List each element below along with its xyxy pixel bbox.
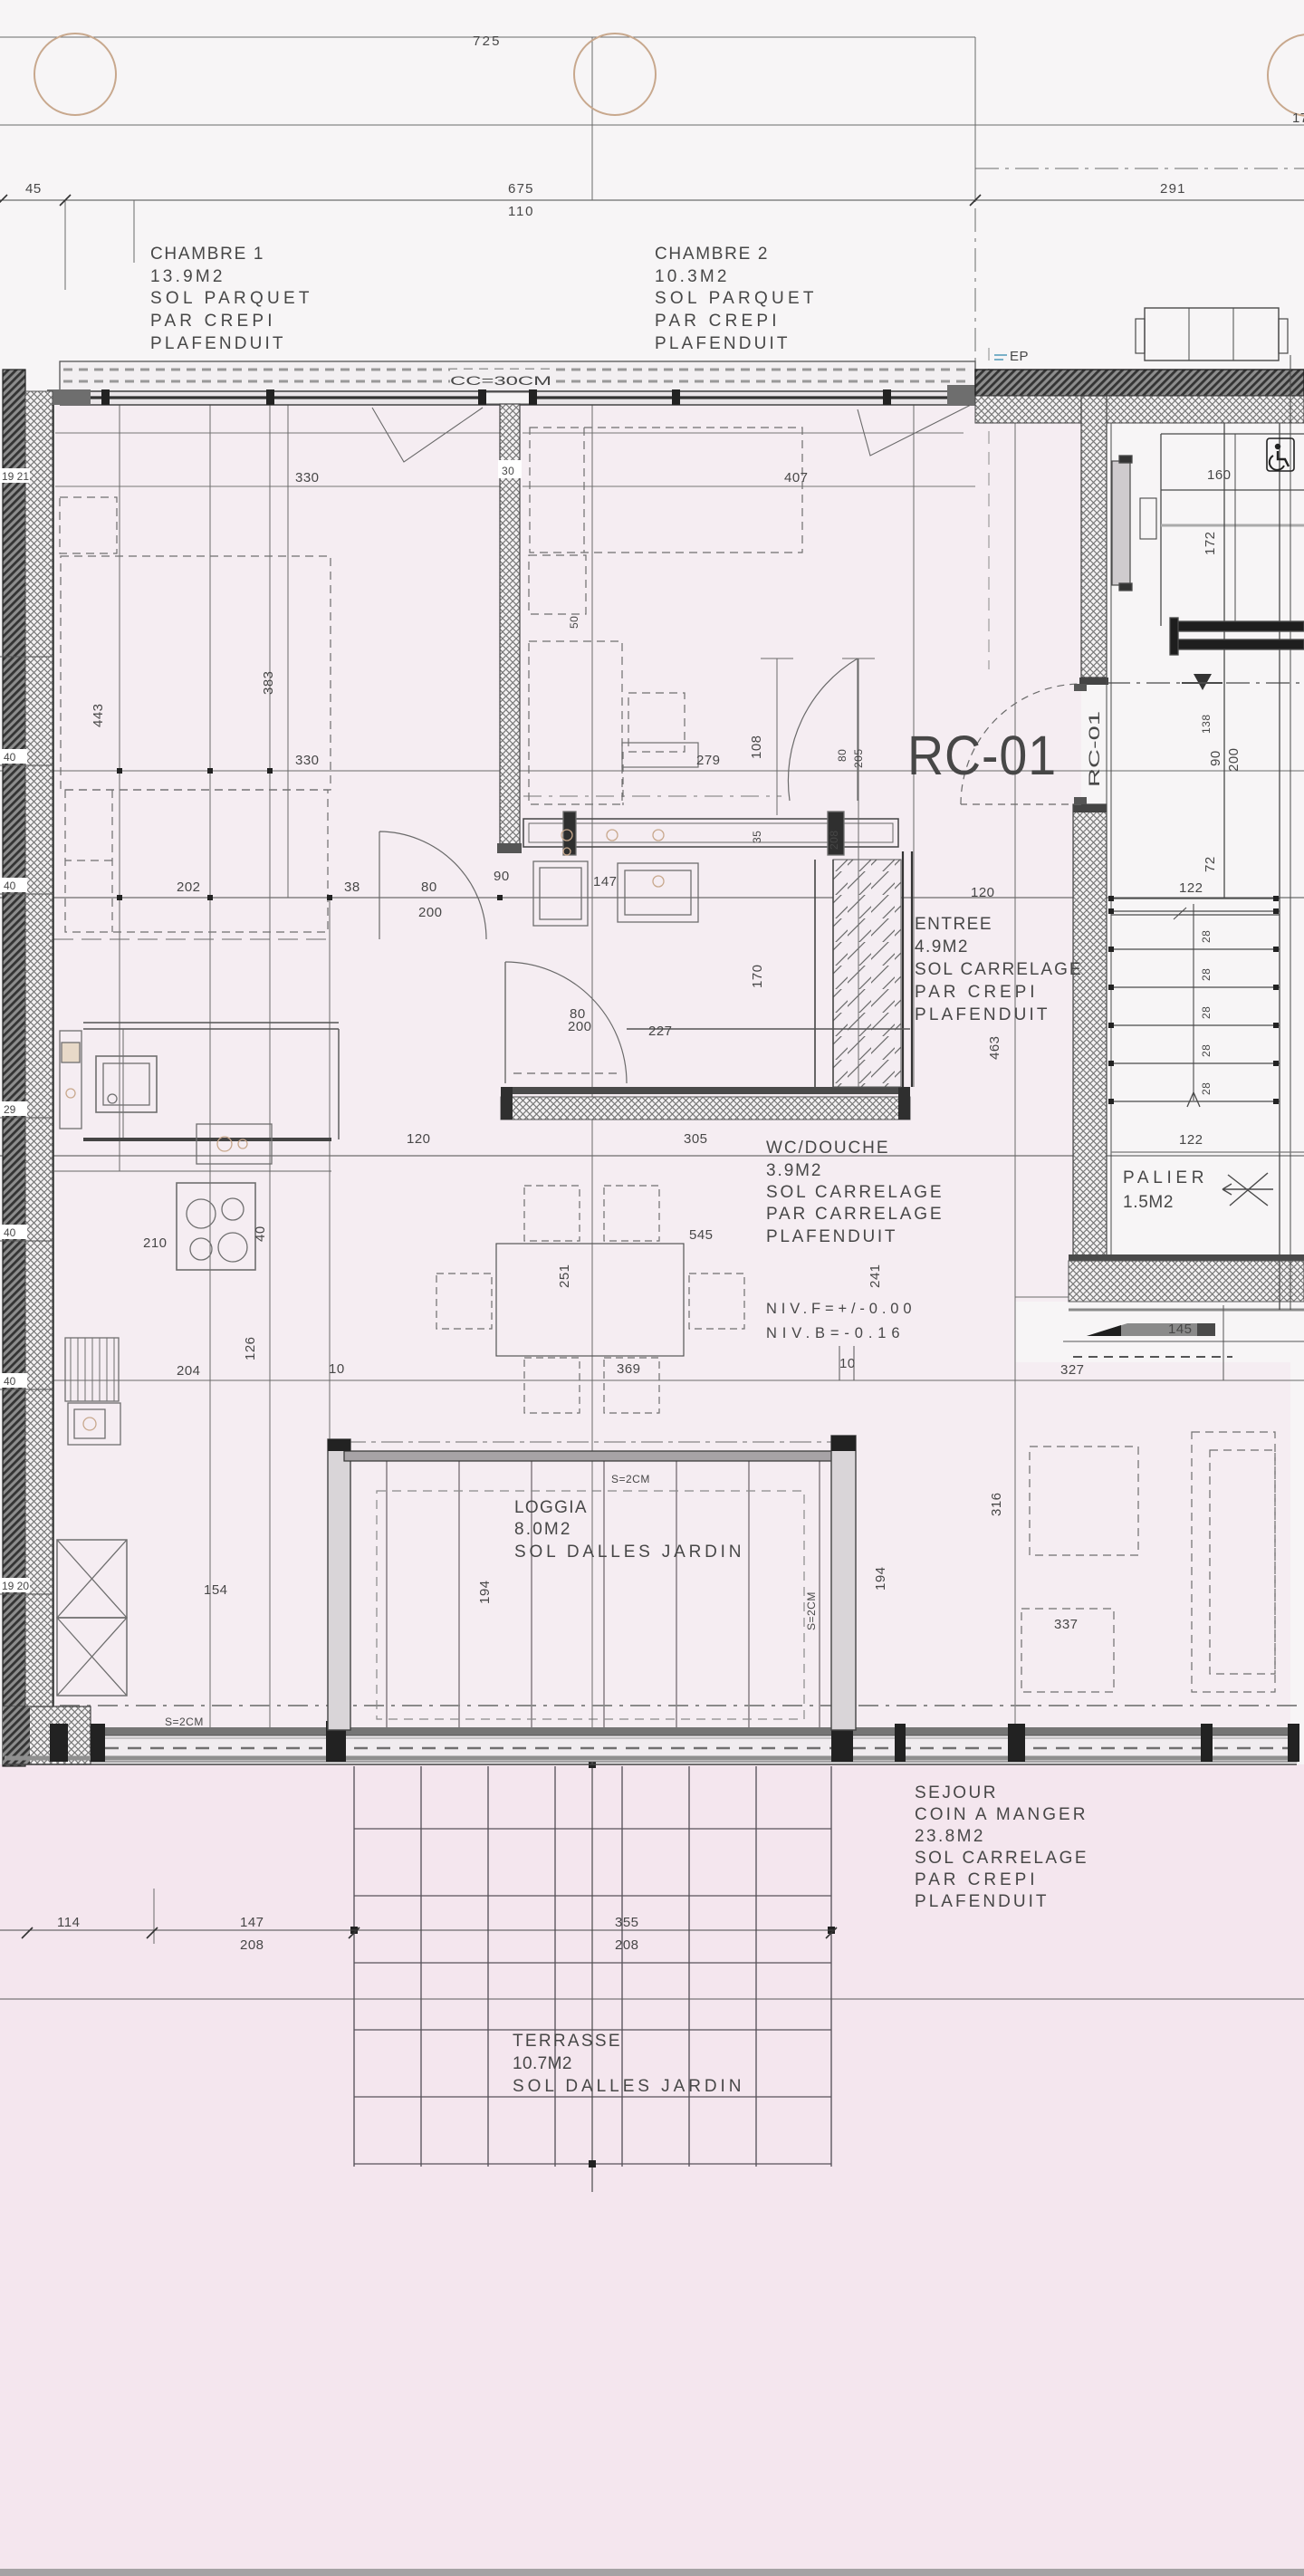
svg-text:90: 90 [494,869,510,884]
svg-text:355: 355 [615,1915,639,1930]
svg-text:545: 545 [689,1227,714,1243]
svg-text:202: 202 [177,879,201,895]
svg-text:40: 40 [253,1226,268,1242]
svg-text:RC-01: RC-01 [1087,711,1103,787]
svg-text:COIN A MANGER: COIN A MANGER [915,1805,1086,1824]
svg-text:8.0M2: 8.0M2 [514,1520,570,1539]
svg-text:407: 407 [784,470,809,485]
svg-text:208: 208 [240,1937,264,1953]
svg-text:227: 227 [648,1024,673,1039]
svg-text:138: 138 [1200,714,1213,734]
svg-text:725: 725 [473,34,500,49]
svg-text:383: 383 [261,670,276,695]
svg-text:29: 29 [4,1103,16,1116]
svg-text:122: 122 [1179,1132,1203,1148]
svg-text:28: 28 [1200,1044,1213,1057]
svg-text:291: 291 [1160,181,1185,197]
svg-text:PAR CREPI: PAR CREPI [150,312,273,331]
svg-text:PAR CREPI: PAR CREPI [915,1870,1035,1889]
svg-text:40: 40 [4,879,16,892]
svg-text:SOL PARQUET: SOL PARQUET [150,289,310,308]
svg-text:PLAFENDUIT: PLAFENDUIT [655,334,788,353]
svg-text:241: 241 [868,1264,883,1288]
svg-text:40: 40 [4,751,16,764]
svg-text:S=2CM: S=2CM [165,1716,204,1728]
svg-text:10.7M2: 10.7M2 [513,2054,572,2073]
svg-text:CHAMBRE 1: CHAMBRE 1 [150,245,264,264]
svg-text:279: 279 [696,753,721,768]
svg-text:50: 50 [568,616,580,629]
svg-text:205: 205 [852,748,865,768]
svg-text:19 20: 19 20 [2,1580,29,1592]
svg-text:251: 251 [557,1264,572,1288]
svg-text:120: 120 [407,1131,431,1147]
svg-text:S=2CM: S=2CM [611,1473,650,1485]
svg-text:40: 40 [4,1226,16,1239]
svg-text:316: 316 [989,1492,1004,1516]
svg-text:28: 28 [1200,1082,1213,1095]
svg-text:30: 30 [502,465,514,477]
svg-text:160: 160 [1207,467,1232,483]
svg-text:126: 126 [243,1336,258,1360]
svg-text:PAR CARRELAGE: PAR CARRELAGE [766,1205,942,1224]
svg-text:PLAFENDUIT: PLAFENDUIT [150,334,283,353]
svg-text:S=2CM: S=2CM [805,1591,818,1630]
svg-text:170: 170 [750,964,765,988]
svg-text:337: 337 [1054,1617,1079,1632]
svg-text:114: 114 [57,1915,80,1930]
svg-text:PAR CREPI: PAR CREPI [655,312,777,331]
svg-text:463: 463 [987,1035,1002,1060]
svg-text:SOL DALLES JARDIN: SOL DALLES JARDIN [513,2077,742,2096]
svg-text:10: 10 [839,1356,856,1371]
svg-text:369: 369 [617,1361,641,1377]
svg-text:SOL CARRELAGE: SOL CARRELAGE [766,1183,942,1202]
svg-text:10: 10 [329,1361,345,1377]
svg-text:4.9M2: 4.9M2 [915,937,968,956]
svg-text:28: 28 [1200,930,1213,943]
svg-text:145: 145 [1168,1322,1193,1337]
svg-text:204: 204 [177,1363,201,1379]
svg-text:72: 72 [1203,856,1218,872]
svg-text:443: 443 [91,703,106,727]
svg-text:SOL CARRELAGE: SOL CARRELAGE [915,960,1081,979]
svg-text:194: 194 [477,1580,493,1604]
svg-text:SOL PARQUET: SOL PARQUET [655,289,814,308]
svg-text:CC=30CM: CC=30CM [450,374,551,388]
svg-text:80: 80 [421,879,437,895]
svg-text:110: 110 [508,204,533,219]
svg-text:330: 330 [295,470,320,485]
svg-text:SOL CARRELAGE: SOL CARRELAGE [915,1849,1087,1868]
svg-text:SOL DALLES JARDIN: SOL DALLES JARDIN [514,1543,742,1562]
svg-text:330: 330 [295,753,320,768]
svg-text:200: 200 [568,1019,592,1034]
svg-text:194: 194 [873,1566,888,1591]
svg-text:45: 45 [25,181,42,197]
svg-text:327: 327 [1060,1362,1085,1378]
svg-text:80: 80 [836,749,849,762]
svg-text:CHAMBRE 2: CHAMBRE 2 [655,245,768,264]
svg-text:210: 210 [143,1235,168,1251]
svg-text:122: 122 [1179,880,1203,896]
svg-text:147: 147 [240,1915,264,1930]
svg-text:90: 90 [1208,750,1223,766]
svg-text:RC-01: RC-01 [907,725,1057,786]
svg-text:WC/DOUCHE: WC/DOUCHE [766,1139,888,1158]
svg-text:35: 35 [751,831,763,843]
svg-text:LOGGIA: LOGGIA [514,1498,587,1517]
svg-text:PALIER: PALIER [1123,1168,1204,1187]
svg-text:10.3M2: 10.3M2 [655,267,727,286]
svg-text:120: 120 [971,885,995,900]
svg-text:208: 208 [615,1937,639,1953]
svg-text:200: 200 [418,905,443,920]
svg-text:675: 675 [508,181,533,197]
svg-text:PAR CREPI: PAR CREPI [915,983,1035,1002]
svg-text:19 21: 19 21 [2,470,29,483]
svg-text:200: 200 [1226,747,1242,772]
svg-text:38: 38 [344,879,360,895]
svg-text:28: 28 [1200,1006,1213,1019]
svg-text:147: 147 [593,874,618,889]
svg-text:13.9M2: 13.9M2 [150,267,223,286]
svg-text:40: 40 [4,1375,16,1388]
svg-text:3.9M2: 3.9M2 [766,1161,821,1180]
svg-text:172: 172 [1203,531,1218,555]
svg-text:EP: EP [1010,349,1029,364]
svg-text:NIV.B=-0.16: NIV.B=-0.16 [766,1325,900,1341]
svg-text:17: 17 [1292,111,1304,126]
svg-text:208: 208 [828,830,840,850]
svg-text:108: 108 [749,735,764,759]
svg-text:305: 305 [684,1131,708,1147]
svg-text:28: 28 [1200,968,1213,981]
svg-text:154: 154 [204,1582,228,1598]
svg-text:1.5M2: 1.5M2 [1123,1193,1174,1212]
svg-text:ENTREE: ENTREE [915,915,992,934]
